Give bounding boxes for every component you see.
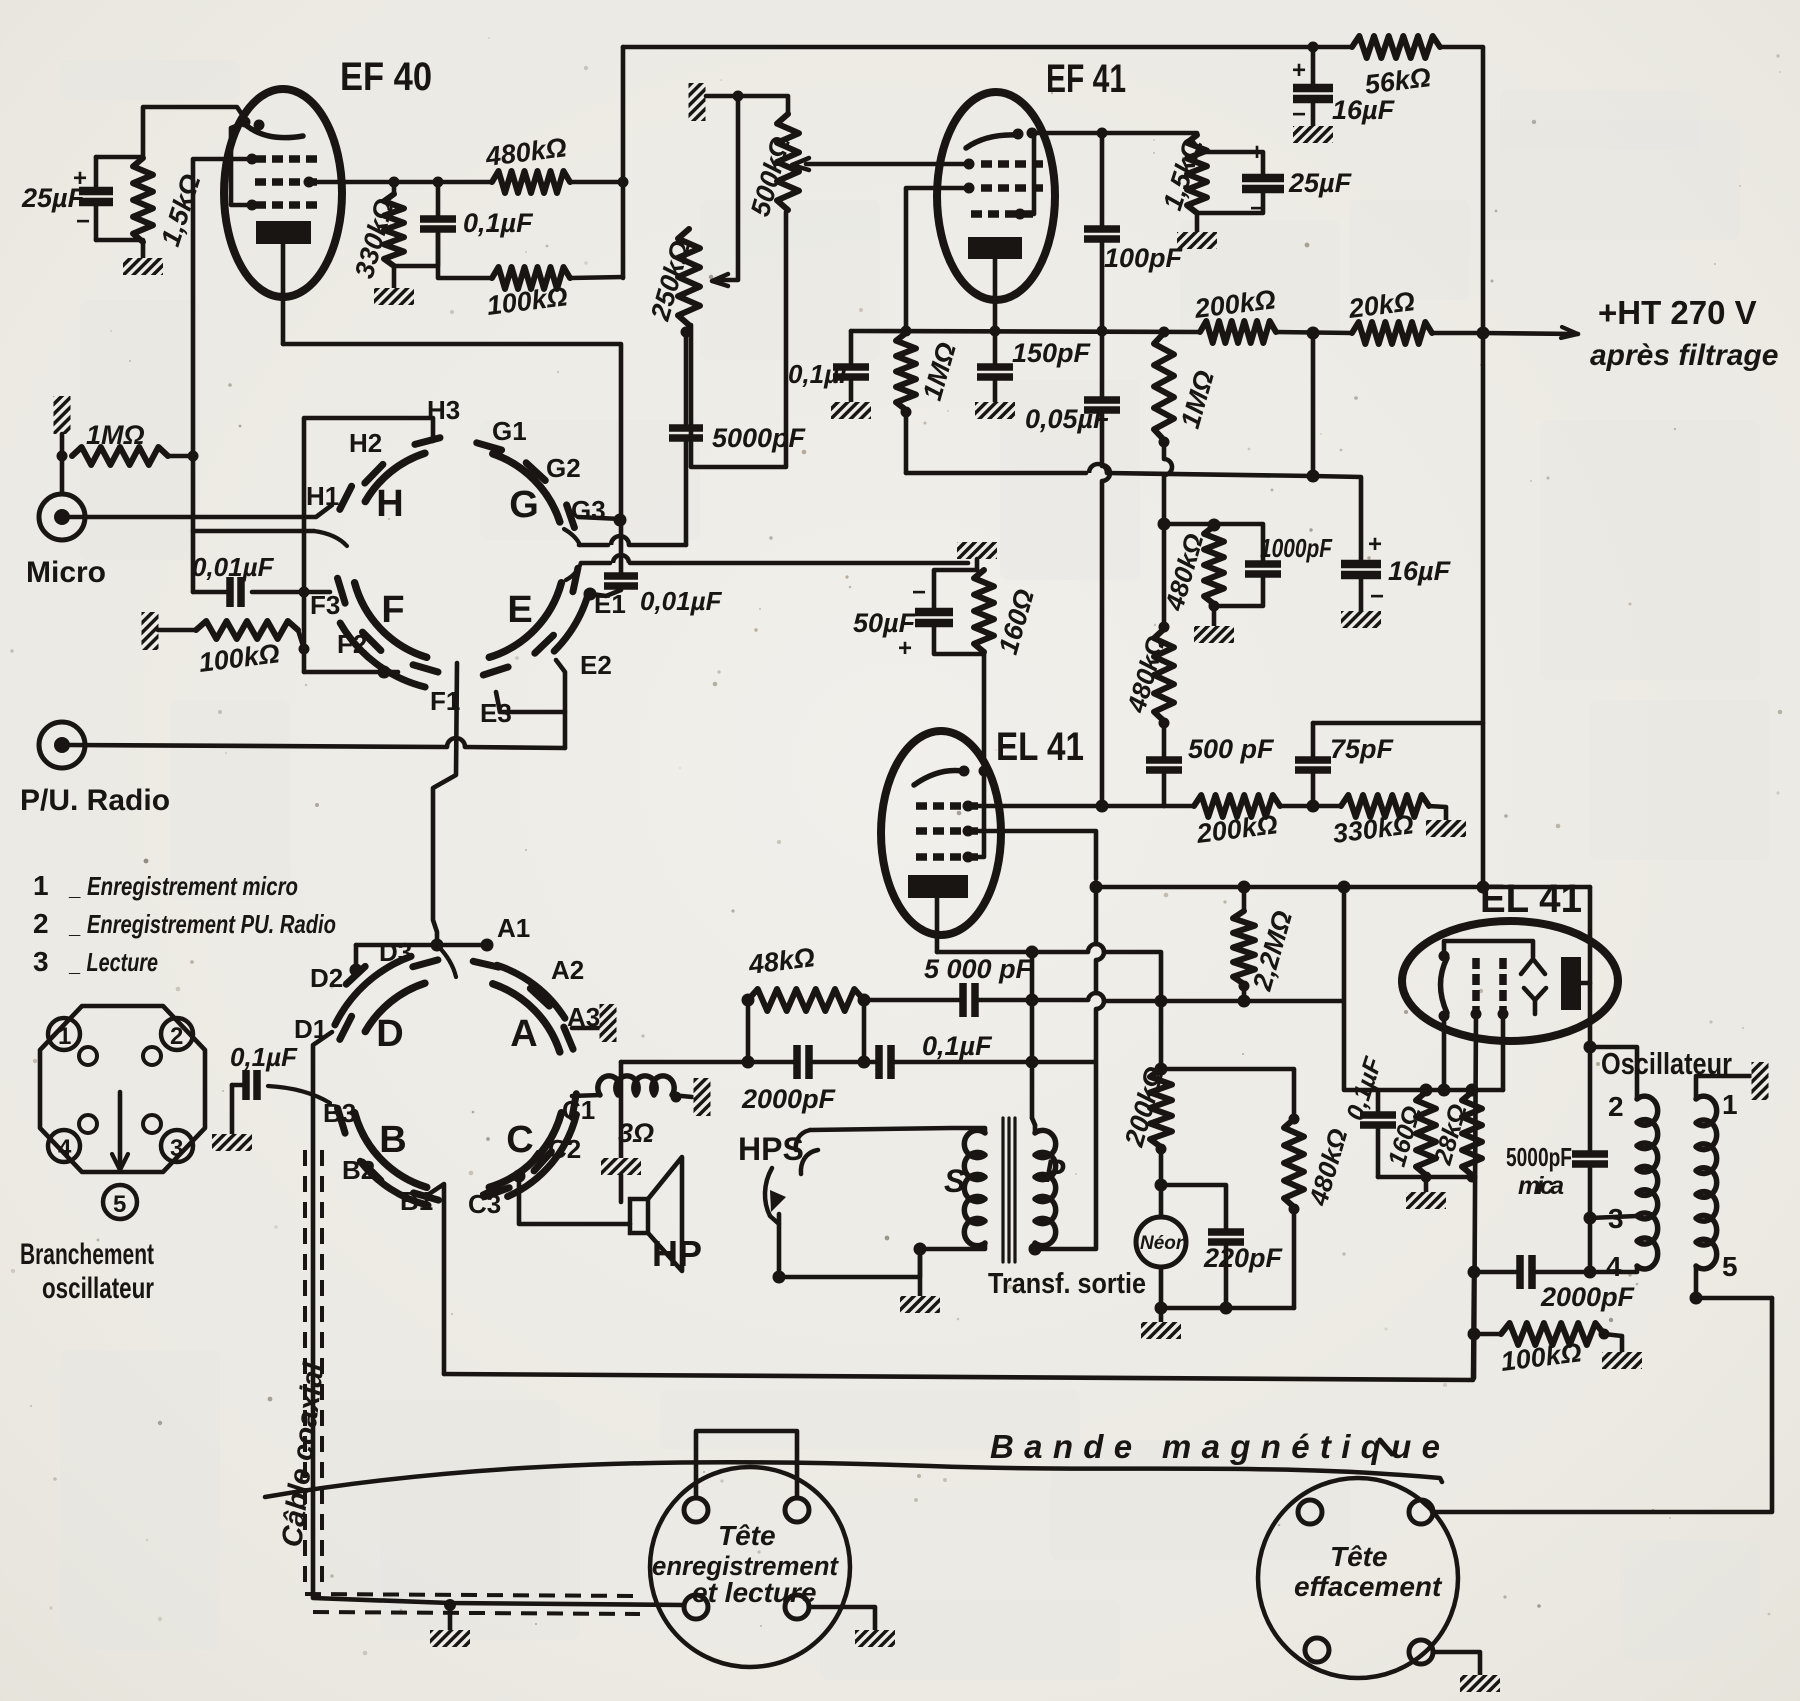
EL41 g3 row — [916, 853, 927, 861]
EF40 grid g2 (screen) row — [255, 178, 266, 186]
head record/play circle — [650, 1467, 850, 1667]
switch S2 contact C2 — [534, 1152, 551, 1171]
switch S1 F-sector outer arc — [340, 623, 425, 687]
wire head erase to ground — [1433, 1652, 1480, 1675]
svg-text:H2: H2 — [349, 428, 382, 458]
svg-text:D: D — [376, 1013, 403, 1055]
EL41 osc g2 column — [1499, 958, 1507, 969]
wire NFB row to HP ground leg — [619, 1062, 624, 1158]
svg-text:D2: D2 — [310, 963, 343, 993]
wire E3 strap — [496, 692, 565, 712]
switch S1 contact G2 — [526, 463, 545, 481]
ground under transformer — [918, 1249, 923, 1296]
plug pin 1 — [48, 1018, 80, 1050]
wire osc grid bias row — [1344, 887, 1503, 1090]
plug arrow to pin 5 — [118, 1092, 123, 1165]
svg-text:Branchement: Branchement — [20, 1238, 154, 1271]
switch S1 contact G3 — [567, 505, 575, 528]
ground after 100k osc — [1602, 1352, 1642, 1369]
svg-text:EF 41: EF 41 — [1046, 57, 1126, 101]
svg-text:Micro: Micro — [26, 556, 106, 589]
svg-text:5 000 pF: 5 000 pF — [924, 954, 1034, 984]
wire g2 feed — [906, 188, 969, 331]
svg-text:A: A — [510, 1013, 537, 1055]
svg-text:−: − — [912, 579, 926, 606]
wire 480k pair row — [1164, 524, 1263, 560]
wire F-arc row to F1 — [304, 670, 398, 675]
wire bus through 0,01uF to E1 — [619, 521, 624, 572]
wire HT bus down right — [1481, 333, 1486, 887]
svg-text:E: E — [507, 589, 532, 631]
svg-text:5: 5 — [1722, 1251, 1738, 1282]
switch S2 contact D3 — [413, 960, 438, 967]
ground above speaker — [601, 1158, 641, 1175]
ground under 330k — [374, 288, 414, 305]
svg-text:+: + — [73, 165, 87, 192]
wire 500k wiper to EF41 grid — [806, 162, 969, 167]
wire EF41 anode stem — [993, 259, 998, 331]
tube EL41 envelope — [881, 731, 1001, 935]
wire EL41 g2 to B+ bus — [968, 831, 1096, 879]
ground above cathode network — [957, 542, 997, 559]
svg-text:A2: A2 — [551, 955, 584, 985]
svg-text:G1: G1 — [492, 416, 527, 446]
EL41 g2 row — [916, 827, 927, 835]
svg-text:1MΩ: 1MΩ — [86, 420, 145, 450]
EL41 osc anode plate — [1561, 957, 1581, 1010]
head erase circle — [1258, 1478, 1458, 1678]
EL41 osc cathode arc — [1441, 958, 1448, 1013]
switch S1 contact F1 — [413, 665, 438, 672]
ground after 330k — [1426, 820, 1466, 837]
svg-text:100pF: 100pF — [1104, 243, 1184, 273]
svg-text:_ Enregistrement micro: _ Enregistrement micro — [68, 871, 298, 901]
ground under 480k-a — [1194, 626, 1234, 643]
EF40 cathode/heater arc — [247, 126, 303, 138]
svg-text:EF 40: EF 40 — [340, 55, 432, 99]
wire inter-switch link — [433, 663, 457, 945]
wire PU radio row — [70, 745, 447, 747]
svg-text:Tête: Tête — [1330, 1541, 1388, 1572]
EF40 grid g3 row — [255, 201, 266, 209]
switch S2 contact B3 — [338, 1108, 346, 1133]
ground osc pickup top — [1752, 1062, 1769, 1100]
EF40 g3-to-cathode internal link — [231, 123, 252, 205]
EF41 g1 row — [981, 160, 992, 168]
svg-text:2000pF: 2000pF — [741, 1084, 837, 1114]
svg-text:75pF: 75pF — [1330, 734, 1395, 764]
EL41 cathode arc — [914, 771, 962, 785]
EF41 anode plate — [968, 237, 1022, 259]
wire row 1069 right — [1161, 1069, 1294, 1119]
wire micro to H1 — [70, 505, 332, 517]
wire D3-A1 strap row — [356, 943, 487, 948]
wire main frame bottom rail — [444, 1272, 1474, 1380]
switch S2 D-sector outer arc — [335, 956, 411, 1025]
switch S2 contact D2 — [346, 966, 365, 984]
svg-text:C: C — [506, 1119, 533, 1161]
switch S1 E-sector outer arc — [554, 593, 589, 652]
svg-text:500 pF: 500 pF — [1188, 734, 1275, 764]
svg-text:Bande magnétique: Bande magnétique — [990, 1428, 1440, 1465]
EF41 cathode arc — [966, 135, 1016, 148]
ground under 1,5k EF41 — [1177, 232, 1217, 249]
wire EL41 g1 bias resistors row — [1194, 795, 1280, 817]
switch S2 contact D1 — [340, 1016, 352, 1039]
EL41 anode plate — [908, 875, 968, 898]
wire A3 to ground — [572, 1026, 601, 1031]
head record holes — [684, 1498, 708, 1522]
wire 75pF top to HT bus — [1313, 721, 1483, 726]
wire osc g2 down — [1501, 1014, 1506, 1090]
svg-text:Néon: Néon — [1140, 1233, 1188, 1254]
wire EF41 cathode row to 1,5k — [1032, 131, 1197, 136]
ground under 0,1uF — [831, 402, 871, 419]
svg-text:2: 2 — [1608, 1091, 1624, 1122]
wire G3 to bus — [578, 517, 621, 519]
switch S2 contact A1 — [473, 961, 498, 967]
ground osc cathode — [1406, 1192, 1446, 1209]
wire osc cathode down — [1442, 1016, 1447, 1090]
wire g2 decoupling row to 200k/20k junction — [906, 471, 1086, 476]
switch S2 contact C1 — [572, 1094, 576, 1118]
wire +HT row — [851, 331, 1200, 332]
plug pin 4 — [48, 1130, 80, 1162]
switch S2 contact A3 — [564, 1027, 573, 1049]
svg-text:A1: A1 — [497, 913, 530, 943]
plug pin 3 — [161, 1130, 193, 1162]
ground under 16uF — [1293, 126, 1333, 143]
switch S2 contact C3 — [485, 1188, 509, 1197]
svg-text:et lecture: et lecture — [692, 1577, 817, 1608]
wire EF40 anode stem down to anode row — [281, 244, 286, 344]
EL41 osc top strap — [1444, 941, 1533, 957]
oscillator transformer winding 1-5 — [1696, 1096, 1717, 1269]
wire 250k bottom to 500k bottom — [691, 212, 786, 467]
EL41 g3 internal link — [968, 771, 984, 857]
svg-text:150pF: 150pF — [1012, 338, 1092, 368]
svg-text:2000pF: 2000pF — [1540, 1282, 1636, 1312]
svg-text:EL 41: EL 41 — [1480, 877, 1582, 921]
tube EL41 osc envelope — [1402, 921, 1618, 1041]
svg-text:G: G — [509, 484, 539, 526]
wire osc grid leak vertical — [1474, 1014, 1476, 1378]
svg-text:1000pF: 1000pF — [1260, 533, 1333, 563]
svg-text:4: 4 — [58, 1135, 72, 1162]
wire E-rotor to cathode network row — [566, 563, 581, 580]
head record bracket — [696, 1431, 797, 1498]
ground on head line — [448, 1603, 453, 1630]
wire EF40 grid line down to switch — [193, 159, 252, 592]
svg-text:EL 41: EL 41 — [996, 725, 1084, 769]
svg-text:1: 1 — [1722, 1089, 1738, 1120]
wire head record right to ground — [809, 1607, 875, 1630]
svg-text:E2: E2 — [580, 650, 612, 680]
plug pin 2 — [161, 1018, 193, 1050]
wire +HT arrow — [1483, 333, 1578, 334]
switch S1 rotor ring — [489, 583, 561, 658]
EF41 g3 internal link — [1020, 133, 1034, 214]
switch S2 contact B2 — [363, 1162, 381, 1180]
switch S2 contact A2 — [530, 988, 549, 1006]
svg-text:−: − — [1292, 101, 1306, 128]
svg-text:+: + — [1368, 531, 1382, 558]
wire EF40 anode row — [283, 344, 621, 521]
wire B1 to frame — [426, 1184, 444, 1374]
switch S1 contact G1 — [477, 443, 502, 450]
svg-text:5000pF: 5000pF — [1506, 1142, 1572, 1172]
switch S1 contact E2 — [535, 635, 554, 653]
wire EL41 anode row — [937, 950, 1032, 955]
ground at 500k top — [689, 83, 706, 121]
svg-text:G2: G2 — [546, 453, 581, 483]
svg-text:3: 3 — [33, 946, 49, 977]
wire screen row 887 — [1096, 885, 1590, 890]
EF41 g2 row — [981, 184, 992, 192]
svg-text:_ Enregistrement PU. Radio: _ Enregistrement PU. Radio — [68, 909, 336, 939]
plug pin 5 — [103, 1185, 137, 1219]
svg-text:3Ω: 3Ω — [618, 1118, 654, 1148]
ground under 150pF — [975, 402, 1015, 419]
svg-text:F: F — [381, 589, 404, 631]
wire 250k wiper arm — [716, 96, 738, 280]
svg-text:effacement: effacement — [1294, 1571, 1443, 1602]
switch S1 contact H2 — [365, 464, 383, 483]
svg-text:G3: G3 — [571, 495, 606, 525]
EL41 osc beam plates — [1521, 959, 1545, 974]
svg-text:+: + — [1292, 57, 1306, 84]
wire C2 C3 junction to speaker — [519, 1152, 538, 1176]
wire EL41 anode stem — [935, 898, 940, 952]
wire EL41 g1 row to coupling bus — [968, 804, 1164, 809]
transformer core — [1001, 1118, 1004, 1262]
oscillator transformer winding 2-3-4 — [1637, 1096, 1658, 1219]
ground under 1,5k — [123, 258, 163, 275]
svg-text:Transf. sortie: Transf. sortie — [988, 1268, 1146, 1300]
EL41 g1 row — [916, 802, 927, 810]
wire anode to output transformer primary — [1032, 952, 1035, 1125]
svg-text:C1: C1 — [562, 1095, 595, 1125]
svg-text:2: 2 — [170, 1023, 183, 1050]
svg-text:oscillateur: oscillateur — [42, 1272, 154, 1305]
EF40 anode plate — [256, 221, 311, 244]
speaker HP — [630, 1199, 648, 1233]
svg-text:2: 2 — [33, 908, 49, 939]
switch S1 contact E1 — [573, 568, 578, 592]
svg-text:1: 1 — [58, 1023, 71, 1050]
switch S1 contact F3 — [338, 578, 346, 603]
wire osc cathode bottom row — [1378, 1175, 1472, 1180]
wire osc anode vertical — [1588, 887, 1593, 1047]
EF41 g3 row — [971, 210, 982, 218]
svg-text:3: 3 — [170, 1135, 183, 1162]
svg-text:−: − — [1370, 583, 1384, 610]
wire G-rotor to 5000pF row — [564, 529, 580, 545]
svg-text:220pF: 220pF — [1203, 1243, 1284, 1273]
svg-text:F3: F3 — [310, 590, 340, 620]
svg-text:5000pF: 5000pF — [712, 423, 807, 453]
svg-text:3: 3 — [1608, 1203, 1624, 1234]
switch S1 contact H3 — [415, 438, 440, 445]
wire erase feed down right — [1432, 1298, 1772, 1512]
plug small holes — [79, 1047, 97, 1065]
svg-text:5: 5 — [113, 1191, 126, 1218]
svg-text:−: − — [76, 208, 90, 235]
svg-text:B: B — [379, 1119, 406, 1161]
svg-text:H1: H1 — [306, 481, 339, 511]
oscillator plug octagon — [40, 1006, 205, 1172]
wire bus-A vertical — [621, 47, 626, 278]
svg-text:HP: HP — [652, 1233, 702, 1274]
wire cathode down into EL41 — [982, 654, 987, 771]
EL41 osc g1 column — [1472, 958, 1480, 969]
svg-text:4: 4 — [1606, 1251, 1622, 1282]
svg-text:0,01µF: 0,01µF — [640, 586, 723, 616]
svg-text:16µF: 16µF — [1388, 556, 1452, 586]
wire HPS to transformer secondary — [779, 1249, 920, 1277]
svg-text:0,1µF: 0,1µF — [922, 1031, 993, 1061]
wire top rail bus — [623, 45, 1352, 50]
wire grid line to rotor W gap — [193, 529, 314, 534]
wire strap into rotor N gap — [437, 945, 456, 977]
jack P/U Radio input — [39, 722, 85, 768]
svg-text:+: + — [898, 635, 912, 662]
switch S2 contact B1 — [414, 1193, 439, 1200]
switch S1 contact E3 — [483, 667, 508, 675]
svg-text:_ Lecture: _ Lecture — [68, 947, 158, 977]
switch S1 contact H1 — [340, 486, 352, 509]
svg-text:Tête: Tête — [718, 1520, 776, 1551]
wire cathode top net — [96, 155, 143, 160]
head erase holes — [1298, 1500, 1322, 1524]
tube EF40 envelope — [224, 89, 342, 297]
ground under 16uF-2 — [1341, 611, 1381, 628]
switch S1 contact F2 — [363, 632, 381, 650]
wire neon bottom row and ground — [1161, 1306, 1294, 1311]
svg-text:après filtrage: après filtrage — [1590, 339, 1778, 372]
svg-text:1: 1 — [33, 870, 49, 901]
ground under 0,1uF osc — [212, 1134, 252, 1151]
svg-text:50µF: 50µF — [853, 608, 917, 638]
resistor 160 cathode + 50uF — [975, 559, 980, 570]
switch S2 B-sector outer arc — [360, 1161, 428, 1205]
wire H3 strap to F3 — [304, 418, 433, 672]
svg-text:+HT 270 V: +HT 270 V — [1598, 294, 1757, 331]
EF40 grid g1 row — [255, 155, 266, 163]
wire EF40 screen row to 480k — [309, 180, 492, 185]
wire cathode bottom net to ground — [96, 240, 143, 258]
wire E2 drop to PU row — [556, 660, 565, 748]
wire osc pickup bottom row — [1696, 1266, 1772, 1298]
svg-text:mica: mica — [1518, 1172, 1564, 1200]
svg-text:P/U. Radio: P/U. Radio — [20, 784, 170, 817]
svg-text:0,1µF: 0,1µF — [463, 208, 534, 238]
svg-text:25µF: 25µF — [1288, 168, 1353, 198]
switch S2 A-sector outer arc — [497, 965, 565, 1018]
svg-text:16µF: 16µF — [1332, 95, 1396, 125]
svg-text:0,1µF: 0,1µF — [230, 1042, 298, 1072]
jack Micro input — [39, 494, 85, 540]
svg-text:H: H — [376, 483, 403, 525]
tube EF41 envelope — [937, 92, 1055, 300]
switch S2 C-sector outer arc — [508, 1115, 577, 1197]
lamp Neon — [1136, 1217, 1186, 1267]
switch S2 rotor ring — [489, 1113, 561, 1188]
